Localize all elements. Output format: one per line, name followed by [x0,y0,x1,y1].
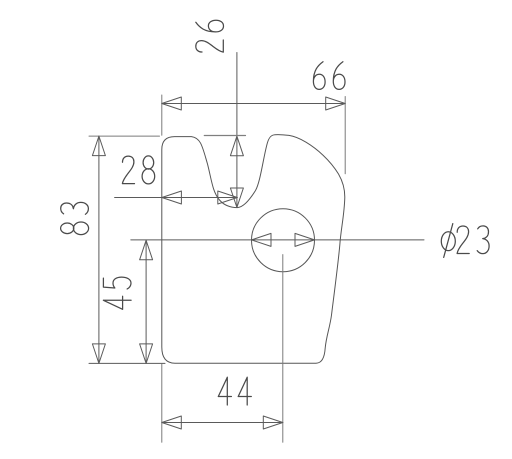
label 66 [313,62,345,90]
extension line 44 right vertical (hole center) [282,255,284,443]
extension line 66 right vertical [344,97,346,174]
arrow 26 up [230,136,243,156]
arrow dia right [295,233,315,246]
arrow 45 up [140,240,153,259]
extension line 66 left vertical [161,95,163,135]
centerline through hole / dia dimension line [131,239,424,241]
extension line 83 bottom horizontal [89,362,165,364]
dimension 45 vertical line [145,240,147,363]
arrow 28 right [218,191,238,204]
label 83 (rotated) [61,202,89,234]
label 28 [122,156,154,184]
extension line 44 left vertical [161,364,163,442]
hole circle [252,209,315,272]
arrow 44 right [263,416,283,429]
dimension 66 line [162,103,345,105]
arrow dia left [252,233,272,246]
arrow 26 down [230,188,243,208]
dimension 44 line [162,422,283,424]
extension segment over notch [204,135,245,137]
dimension 83 vertical line [98,136,100,363]
label dia 23 [441,224,489,258]
label 26 (rotated) [196,20,224,52]
extension line 83 top horizontal [89,135,160,137]
dimension 26 vertical line [236,53,238,208]
arrow 44 left [162,416,182,429]
arrow 28 left [162,191,182,204]
label 45 (rotated) [103,277,131,309]
arrow 66 left [162,97,182,110]
part outline [162,135,345,364]
arrow 66 right [326,97,346,110]
dimension 28 line [115,197,238,199]
arrow 83 up [92,136,105,156]
arrow 83 down [92,344,105,364]
arrow 45 down [140,344,153,364]
label 44 [218,377,251,405]
